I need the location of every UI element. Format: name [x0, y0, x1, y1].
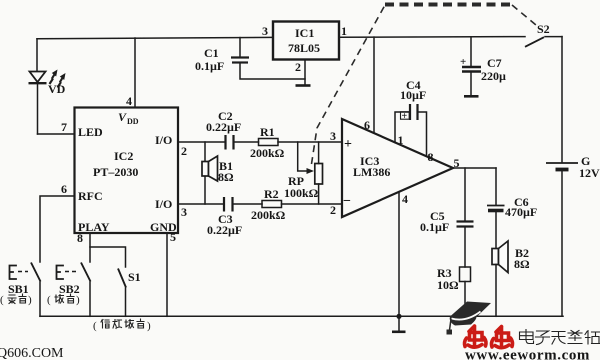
- watermark graduation cap: [447, 302, 492, 335]
- svg-text:5: 5: [454, 156, 460, 170]
- pushbutton SB1: [8, 263, 41, 317]
- wire pin4 Vdd of IC2: [126, 38, 135, 108]
- capacitor C4 with pin1 and pin8: [395, 78, 434, 164]
- watermark Q606.COM: [0, 346, 64, 360]
- battery G 12V: [546, 37, 600, 317]
- svg-text:): ): [76, 294, 80, 306]
- voltage regulator IC1 78L05: [262, 22, 347, 60]
- watermark url: [465, 348, 590, 360]
- wire pin8 PLAY down: [77, 231, 90, 262]
- wire C3 to R2: [233, 203, 263, 205]
- svg-text:S2: S2: [537, 22, 550, 36]
- svg-text:RFC: RFC: [78, 189, 103, 203]
- switch S1: [118, 269, 141, 317]
- svg-text:C1: C1: [204, 46, 219, 60]
- svg-text:0.1µF: 0.1µF: [420, 220, 449, 234]
- svg-text:I/O: I/O: [155, 133, 172, 147]
- wire pin2 I/O top: [178, 142, 225, 158]
- svg-text:R1: R1: [260, 125, 275, 139]
- capacitor C2: [206, 109, 241, 150]
- svg-text:78L05: 78L05: [288, 41, 320, 55]
- ground junction: [392, 314, 406, 332]
- wire R1 to pin3 of IC3: [278, 141, 342, 143]
- svg-text:100kΩ: 100kΩ: [284, 186, 319, 200]
- svg-text:I/O: I/O: [155, 197, 172, 211]
- capacitor C3: [207, 197, 242, 237]
- svg-text:6: 6: [364, 118, 370, 132]
- switch S2: [525, 22, 562, 47]
- svg-text:DD: DD: [127, 117, 139, 126]
- svg-text:VD: VD: [48, 82, 66, 96]
- wire left drop to LED: [36, 39, 38, 71]
- wire LED cathode to pin7: [37, 83, 39, 134]
- label (record) for SB1: [0, 294, 32, 306]
- svg-text:SB1: SB1: [8, 282, 29, 296]
- wire pin5 GND down: [167, 230, 176, 316]
- speaker B1: [202, 142, 234, 204]
- svg-text:7: 7: [61, 120, 67, 134]
- wire pin7 of IC2: [38, 120, 75, 134]
- label (playback) for SB2: [47, 294, 80, 306]
- svg-text:3: 3: [330, 129, 336, 143]
- svg-text:10µF: 10µF: [400, 88, 426, 102]
- svg-text:8Ω: 8Ω: [218, 170, 234, 184]
- svg-text:12V: 12V: [579, 166, 600, 180]
- svg-text:4: 4: [402, 192, 408, 206]
- svg-text:R2: R2: [264, 187, 279, 201]
- wire C2 to R1: [234, 141, 259, 143]
- svg-text:IC2: IC2: [114, 149, 133, 163]
- svg-text:C7: C7: [487, 56, 502, 70]
- watermark red characters: [465, 326, 513, 348]
- svg-text:2: 2: [181, 144, 187, 158]
- svg-text:(: (: [47, 294, 51, 306]
- svg-text:220µ: 220µ: [481, 69, 506, 83]
- svg-text:LED: LED: [78, 125, 103, 139]
- capacitor C1: [195, 38, 305, 79]
- svg-text:(: (: [93, 320, 97, 332]
- svg-text:+: +: [344, 137, 352, 152]
- svg-text:): ): [28, 294, 32, 306]
- svg-text:3: 3: [181, 205, 187, 219]
- capacitor C7: [460, 37, 506, 96]
- svg-text:8Ω: 8Ω: [514, 257, 530, 271]
- dashed mechanical link RP to S2: [312, 5, 537, 165]
- svg-text:V: V: [118, 110, 127, 124]
- wire output pin5 of IC3: [453, 156, 496, 170]
- wire top supply rail right: [339, 36, 525, 39]
- svg-text:www.eeworm.com: www.eeworm.com: [465, 348, 590, 360]
- svg-text:LM386: LM386: [353, 165, 390, 179]
- op-amp IC3 LM386: [330, 119, 453, 217]
- svg-text:): ): [147, 320, 151, 332]
- svg-text:(: (: [0, 294, 4, 306]
- svg-text:+: +: [402, 111, 408, 122]
- svg-text:5: 5: [170, 230, 176, 244]
- capacitor C6: [487, 168, 537, 249]
- resistor R3: [437, 227, 471, 316]
- svg-text:200kΩ: 200kΩ: [250, 146, 285, 160]
- svg-text:0.22µF: 0.22µF: [207, 223, 242, 237]
- wire ground bus bottom: [40, 315, 563, 317]
- svg-text:8: 8: [428, 150, 434, 164]
- watermark site name characters: [520, 330, 600, 345]
- svg-text:4: 4: [126, 94, 132, 108]
- svg-text:Q606.COM: Q606.COM: [0, 346, 64, 360]
- svg-text:2: 2: [330, 203, 336, 217]
- svg-text:0.1µF: 0.1µF: [195, 59, 224, 73]
- label (loop playback): [93, 319, 151, 332]
- svg-text:470µF: 470µF: [505, 205, 537, 219]
- svg-text:1: 1: [398, 133, 404, 147]
- svg-text:8: 8: [77, 231, 83, 245]
- svg-text:1: 1: [341, 24, 347, 38]
- svg-text:+: +: [460, 56, 466, 68]
- svg-text:6: 6: [61, 182, 67, 196]
- svg-text:IC1: IC1: [295, 26, 314, 40]
- pushbutton SB2: [57, 263, 91, 317]
- LED VD: [29, 70, 66, 97]
- svg-text:PT–2030: PT–2030: [93, 165, 138, 179]
- speaker B2: [492, 241, 530, 316]
- resistor R2: [251, 187, 286, 222]
- wire pin6 of IC3 to rail: [364, 37, 374, 133]
- wire R2 to pin2 of IC3: [282, 203, 343, 205]
- svg-text:200kΩ: 200kΩ: [251, 208, 286, 222]
- svg-text:2: 2: [295, 60, 301, 74]
- svg-text:−: −: [343, 194, 351, 209]
- wire pin4 of IC3 down: [399, 192, 408, 316]
- svg-text:0.22µF: 0.22µF: [206, 120, 241, 134]
- capacitor C5: [420, 168, 474, 234]
- svg-text:3: 3: [262, 24, 268, 38]
- resistor R1: [250, 125, 285, 160]
- wire pin2 of IC1 to ground bar: [295, 60, 311, 86]
- wire top supply rail left: [37, 37, 273, 38]
- wire pin6 RFC to SB1: [40, 182, 75, 262]
- svg-text:10Ω: 10Ω: [437, 278, 459, 292]
- IC2 PT-2030: [75, 108, 179, 235]
- wire pin3 I/O bottom: [178, 204, 224, 219]
- wire pin8 branch to S1: [90, 247, 126, 267]
- svg-text:S1: S1: [128, 270, 141, 284]
- potentiometer RP: [284, 142, 323, 204]
